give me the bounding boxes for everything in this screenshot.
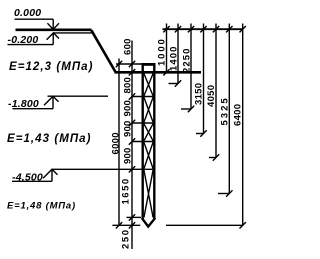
dimension line A pile length (118, 59, 120, 226)
svg-text:900: 900 (123, 148, 134, 164)
pile left wall (141, 64, 143, 219)
svg-text:6400: 6400 (233, 104, 244, 126)
ground level line 0.000 (16, 28, 92, 31)
dimension vertical 2250 (190, 24, 192, 110)
pile cross pattern segment 2 (144, 97, 153, 122)
pile tip bottom bar (112, 224, 140, 226)
pile cross pattern segment 1 (144, 74, 153, 96)
pile right wall (153, 64, 155, 219)
ticks dimension ends (163, 69, 246, 228)
pile segment line 3 (132, 141, 156, 143)
svg-text:E=1,43 (МПа): E=1,43 (МПа) (7, 133, 91, 145)
pile head extension line (116, 63, 142, 65)
pile tip (142, 218, 155, 227)
elevation mark 0.000 (15, 19, 60, 29)
bottom reference line (166, 224, 244, 226)
svg-text:250: 250 (120, 228, 131, 249)
dimension line B pile segments (131, 41, 133, 250)
soil boundary line -4.500 (52, 168, 156, 170)
ticks datum line (163, 26, 246, 32)
soil boundary line -1.800 (48, 95, 109, 97)
svg-text:4050: 4050 (206, 85, 217, 107)
dimension vertical 3150 (203, 24, 205, 134)
svg-text:5325: 5325 (219, 96, 230, 125)
dimension vertical 1000 (166, 24, 168, 73)
elevation mark -1.800 (13, 96, 59, 109)
svg-text:-4.500: -4.500 (12, 172, 43, 184)
svg-text:-1.800: -1.800 (8, 98, 39, 110)
svg-text:600: 600 (122, 38, 133, 55)
pile segment line 1 (132, 96, 156, 98)
pile tip shoulder bar (127, 216, 142, 218)
svg-text:3150: 3150 (194, 83, 205, 105)
dimension vertical 5325 (228, 24, 230, 194)
dimension vertical 4050 (215, 24, 217, 158)
excavation slope (91, 30, 115, 72)
svg-text:0.000: 0.000 (14, 7, 41, 19)
svg-text:800: 800 (123, 77, 134, 93)
dimension vertical 1400 (177, 24, 179, 84)
elevation mark -0.200 (8, 33, 60, 45)
svg-text:1000: 1000 (157, 37, 168, 66)
pile head top (142, 63, 156, 66)
ticks line B (129, 61, 135, 229)
end bar 2250 (181, 108, 191, 110)
svg-text:6000: 6000 (110, 132, 121, 154)
dimension vertical 6400 (242, 24, 244, 226)
svg-text:1650: 1650 (120, 177, 131, 204)
end bar 1400 (169, 83, 179, 85)
pit bottom line (115, 71, 202, 74)
svg-text:900: 900 (123, 100, 134, 116)
svg-text:-0.200: -0.200 (8, 34, 39, 46)
planning level line -0.200 (54, 32, 93, 34)
pile cross pattern segment 4 (144, 142, 153, 168)
pile segment line 2 (132, 122, 156, 124)
end bar 3150 (196, 133, 204, 135)
svg-text:E=12,3 (МПа): E=12,3 (МПа) (9, 61, 93, 73)
end bar 5325 (218, 193, 229, 195)
svg-text:2250: 2250 (181, 47, 192, 73)
end bar 4050 (209, 157, 216, 159)
ticks line A (116, 61, 122, 229)
svg-text:900: 900 (123, 121, 134, 137)
svg-text:E=1,48 (МПа): E=1,48 (МПа) (7, 201, 76, 212)
svg-text:1400: 1400 (168, 45, 179, 71)
elevation mark -4.500 (12, 169, 58, 181)
pile cross pattern segment 5 (144, 170, 153, 218)
right datum line (163, 28, 244, 30)
pile cross pattern segment 3 (144, 124, 153, 141)
